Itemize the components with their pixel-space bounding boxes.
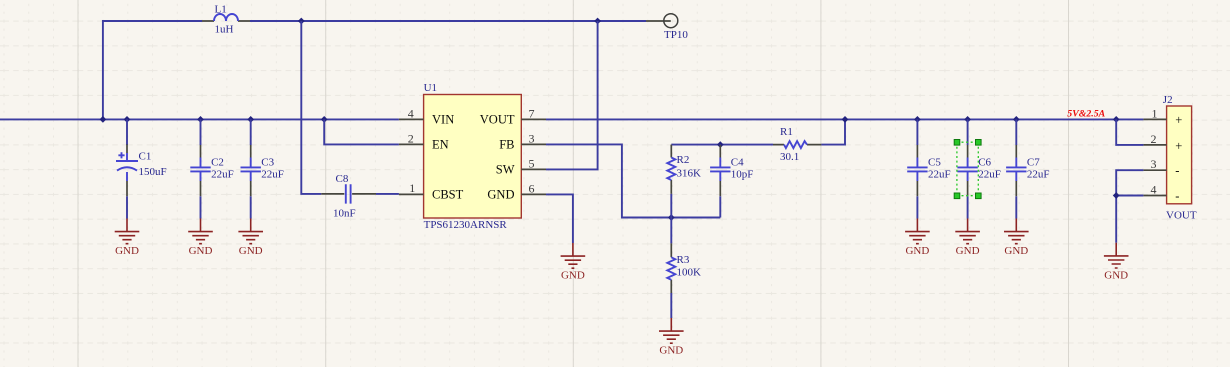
svg-text:1: 1 bbox=[409, 181, 415, 195]
selection box of C6 bbox=[954, 140, 981, 199]
svg-text:1uH: 1uH bbox=[215, 24, 234, 36]
inductor L1 bbox=[202, 4, 250, 36]
ground under R3 bbox=[659, 318, 684, 357]
wire SW top rail bbox=[250, 20, 646, 22]
svg-text:2: 2 bbox=[1151, 132, 1157, 146]
node junction bus at C2 bbox=[197, 116, 204, 123]
capacitor C5 22uF bbox=[907, 119, 950, 218]
pin 3 FB bbox=[521, 143, 546, 145]
svg-text:VOUT: VOUT bbox=[480, 113, 515, 127]
resistor R1 30.1 bbox=[773, 119, 845, 162]
wire C8 branch riser bbox=[301, 21, 321, 194]
svg-text:10nF: 10nF bbox=[333, 208, 356, 220]
connector J2 body bbox=[1163, 94, 1197, 222]
svg-text:100K: 100K bbox=[677, 267, 702, 279]
wire riser from bus to L1 bbox=[103, 21, 202, 119]
node junction bus at EN branch bbox=[321, 116, 328, 123]
capacitor C8 10nF bbox=[321, 173, 399, 220]
ground under C1 bbox=[115, 219, 140, 258]
svg-text:22uF: 22uF bbox=[928, 169, 951, 181]
pin 1 of J2 bbox=[1143, 118, 1166, 120]
pin 4 of J2 bbox=[1143, 195, 1166, 197]
pin 1 CBST bbox=[399, 193, 424, 195]
node junction top rail at C8 branch bbox=[298, 18, 305, 25]
svg-text:J2: J2 bbox=[1163, 94, 1173, 106]
svg-text:SW: SW bbox=[496, 163, 515, 177]
svg-text:1: 1 bbox=[1152, 106, 1158, 120]
pin 2 EN bbox=[399, 143, 424, 145]
capacitor C6 22uF (selected) bbox=[957, 119, 1000, 218]
node junction VOUT at C5 bbox=[914, 116, 921, 123]
svg-text:C5: C5 bbox=[928, 157, 941, 169]
pin 6 GND bbox=[521, 193, 546, 195]
svg-text:VIN: VIN bbox=[432, 113, 454, 127]
svg-text:+: + bbox=[1175, 139, 1182, 153]
wire J2 pin3/pin4 to ground bbox=[1116, 170, 1143, 243]
wire VOUT bus bbox=[546, 118, 1143, 120]
svg-text:7: 7 bbox=[529, 106, 535, 120]
node junction top rail at SW riser bbox=[594, 18, 601, 25]
svg-text:22uF: 22uF bbox=[261, 169, 284, 181]
svg-text:CBST: CBST bbox=[432, 188, 464, 202]
svg-text:TP10: TP10 bbox=[664, 29, 688, 41]
pin 7 VOUT bbox=[521, 118, 546, 120]
svg-text:5: 5 bbox=[529, 156, 535, 170]
node junction VOUT at R1 bbox=[842, 116, 849, 123]
svg-text:3: 3 bbox=[529, 131, 535, 145]
svg-text:4: 4 bbox=[408, 106, 414, 120]
svg-text:316K: 316K bbox=[677, 168, 702, 180]
wire U1 GND pin to ground bbox=[546, 194, 573, 243]
svg-text:C2: C2 bbox=[211, 157, 224, 169]
svg-text:150uF: 150uF bbox=[139, 166, 167, 178]
svg-text:C3: C3 bbox=[261, 157, 274, 169]
svg-text:6: 6 bbox=[529, 181, 535, 195]
ground under C5 bbox=[905, 219, 930, 258]
svg-text:+: + bbox=[1175, 113, 1182, 127]
node junction at C4 top bbox=[717, 141, 724, 148]
svg-text:VOUT: VOUT bbox=[1166, 210, 1197, 222]
svg-text:C1: C1 bbox=[139, 151, 152, 163]
node junction bus at C3 bbox=[247, 116, 254, 123]
svg-text:C7: C7 bbox=[1027, 157, 1040, 169]
svg-text:5V&2.5A: 5V&2.5A bbox=[1067, 108, 1105, 119]
svg-text:-: - bbox=[1175, 164, 1179, 178]
svg-text:3: 3 bbox=[1151, 157, 1157, 171]
svg-text:EN: EN bbox=[432, 138, 449, 152]
pin 5 SW bbox=[521, 168, 546, 170]
resistor R3 100K bbox=[667, 218, 701, 319]
capacitor C3 22uF bbox=[241, 119, 284, 218]
wire EN branch bbox=[324, 119, 399, 144]
ground under C3 bbox=[238, 219, 263, 258]
op-amp U1 TPS61230ARNSR body bbox=[424, 82, 522, 231]
node junction bus at C1 bbox=[124, 116, 131, 123]
svg-text:4: 4 bbox=[1151, 183, 1157, 197]
svg-text:30.1: 30.1 bbox=[780, 151, 799, 163]
resistor R2 316K bbox=[667, 145, 701, 218]
svg-text:-: - bbox=[1175, 189, 1179, 203]
capacitor C7 22uF bbox=[1006, 119, 1049, 218]
svg-text:R3: R3 bbox=[677, 254, 690, 266]
svg-text:FB: FB bbox=[499, 138, 514, 152]
pin 4 VIN bbox=[399, 118, 424, 120]
svg-text:22uF: 22uF bbox=[978, 169, 1001, 181]
test point TP10 bbox=[646, 14, 688, 41]
ground under U1 pin 6 bbox=[561, 243, 586, 282]
node junction J2 pin4 bbox=[1113, 192, 1120, 199]
svg-text:C8: C8 bbox=[336, 173, 349, 185]
ground under C6 bbox=[955, 219, 980, 258]
svg-text:R2: R2 bbox=[677, 154, 690, 166]
svg-text:2: 2 bbox=[408, 131, 414, 145]
node junction FB rail at R2/R3 bbox=[668, 214, 675, 221]
wire R2 top rail to R1 bbox=[671, 144, 773, 146]
svg-text:R1: R1 bbox=[780, 126, 793, 138]
pin 3 of J2 bbox=[1143, 169, 1166, 171]
pin 2 of J2 bbox=[1143, 144, 1166, 146]
ground under C7 bbox=[1004, 219, 1029, 258]
wire FB net bbox=[546, 144, 671, 217]
svg-text:L1: L1 bbox=[215, 4, 227, 16]
svg-text:C4: C4 bbox=[731, 157, 744, 169]
ground under J2 bbox=[1104, 243, 1129, 281]
wire J2 pin2 to VOUT bus bbox=[1116, 119, 1143, 144]
svg-text:GND: GND bbox=[487, 188, 514, 202]
svg-text:22uF: 22uF bbox=[1027, 169, 1050, 181]
node junction bus at riser bbox=[100, 116, 107, 123]
svg-text:U1: U1 bbox=[424, 82, 437, 94]
wire FB bottom rail to C4 bbox=[671, 217, 720, 219]
wire VIN input bus bbox=[0, 118, 399, 120]
node junction VOUT at J2 branch bbox=[1113, 116, 1120, 123]
capacitor C1 (polarized 150uF) bbox=[116, 119, 167, 218]
svg-text:TPS61230ARNSR: TPS61230ARNSR bbox=[424, 219, 508, 231]
ground under C2 bbox=[188, 219, 213, 258]
node junction VOUT at C6 bbox=[964, 116, 971, 123]
capacitor C2 22uF bbox=[190, 119, 233, 218]
capacitor C4 10pF bbox=[710, 145, 753, 218]
svg-text:10pF: 10pF bbox=[731, 169, 754, 181]
node junction VOUT at C7 bbox=[1013, 116, 1020, 123]
svg-text:22uF: 22uF bbox=[211, 169, 234, 181]
svg-text:C6: C6 bbox=[978, 157, 991, 169]
wire SW riser bbox=[546, 21, 598, 169]
